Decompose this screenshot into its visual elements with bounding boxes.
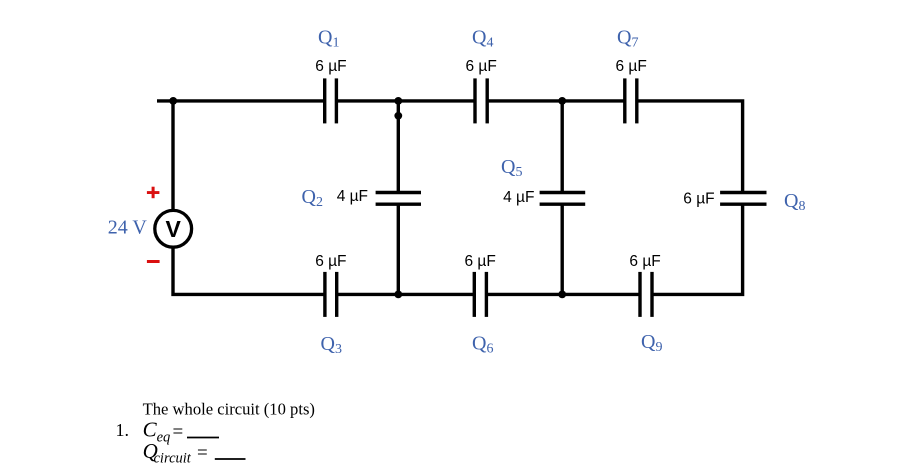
svg-text:6 µF: 6 µF [466, 58, 497, 75]
wire: left vertical from top bus to source plus [171, 101, 174, 211]
junction node: top bus at branch x=398 [394, 97, 402, 105]
wire: top bus between Q4 and Q7 [487, 99, 625, 102]
svg-text:4 µF: 4 µF [337, 188, 368, 205]
wire: bottom bus between Q3 and Q6 [337, 293, 475, 296]
wire: middle branch x=562 upper [561, 101, 564, 193]
wire: bottom bus between Q6 and Q9 [486, 293, 640, 296]
svg-text:1.: 1. [116, 420, 130, 440]
svg-text:4 µF: 4 µF [503, 189, 534, 206]
blank line for Ceq [187, 437, 219, 439]
svg-text:6 µF: 6 µF [465, 253, 496, 270]
wire: middle branch x=562 lower [561, 204, 564, 294]
junction node: top-left [169, 97, 177, 105]
wire: bottom bus left segment with corner up to source minus [173, 247, 325, 294]
capacitor Q9 6µF plates [640, 272, 652, 317]
svg-text:6 µF: 6 µF [315, 253, 346, 270]
svg-text:circuit: circuit [154, 451, 192, 467]
svg-text:24 V: 24 V [108, 217, 148, 239]
capacitor Q4 6µF plates [475, 78, 487, 123]
capacitor Q3 6µF plates [325, 272, 337, 317]
svg-text:eq: eq [157, 430, 171, 446]
wire: top bus between Q1 and Q4 [336, 99, 475, 102]
wire: right vertical below Q8 with corner to bottom bus [652, 204, 743, 294]
svg-text:6 µF: 6 µF [315, 58, 346, 75]
text: Qcircuit = equation [143, 439, 208, 467]
polarity minus sign (red) [147, 260, 160, 263]
capacitor Q1 6µF plates [325, 78, 337, 123]
polarity plus sign (red) [147, 187, 160, 199]
junction node: bottom bus at branch x=562 [558, 291, 566, 299]
capacitor Q6 6µF plates [474, 272, 486, 317]
wire: top bus right segment with corner down to Q8 [637, 101, 743, 193]
junction node: extra dot below on branch x=398 [394, 112, 402, 120]
blank line for Qcircuit [215, 458, 246, 460]
capacitor Q8 6µF plates [720, 193, 766, 205]
svg-text:C: C [143, 418, 158, 442]
svg-text:6 µF: 6 µF [683, 191, 714, 208]
wire: middle branch x=398 lower [397, 204, 400, 294]
capacitor Q5 4µF plates [540, 193, 586, 205]
wire: middle branch x=398 upper [397, 101, 400, 193]
junction node: top bus at branch x=562 [558, 97, 566, 105]
svg-text:6 µF: 6 µF [629, 253, 660, 270]
svg-text:=: = [173, 422, 184, 443]
wire: top bus left segment (node A stub to Q1) [157, 99, 325, 102]
svg-text:=: = [197, 443, 208, 464]
voltage source V (24 V) [155, 210, 192, 247]
svg-text:6 µF: 6 µF [616, 58, 647, 75]
capacitor Q7 6µF plates [625, 78, 637, 123]
junction node: bottom bus at branch x=398 [394, 291, 402, 299]
svg-text:V: V [166, 216, 182, 242]
text: Ceq = equation [143, 418, 184, 446]
capacitor Q2 4µF plates [376, 193, 421, 205]
svg-text:The whole circuit (10 pts): The whole circuit (10 pts) [143, 400, 315, 419]
